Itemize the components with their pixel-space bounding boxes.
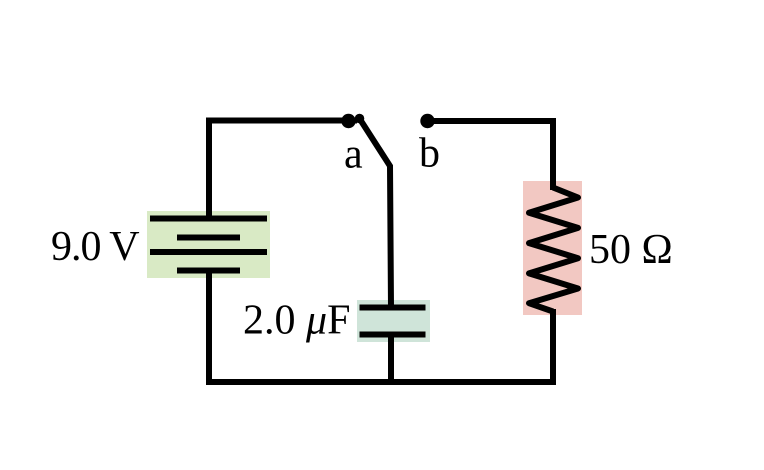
- wire resistor bottom to bottom rail: [550, 309, 556, 382]
- svg-text:9.0 V: 9.0 V: [51, 224, 139, 270]
- wire bottom-left (battery bottom to bottom rail): [206, 271, 212, 382]
- capacitor 2.0 uF: [360, 308, 426, 335]
- resistor 50 Ohm: [529, 188, 578, 312]
- wire capacitor bottom to bottom rail: [388, 335, 394, 383]
- node b: [420, 114, 434, 128]
- svg-text:50 Ω: 50 Ω: [589, 227, 673, 273]
- battery highlight: [147, 211, 270, 278]
- node a: [341, 114, 355, 128]
- battery 9.0 V: [150, 219, 267, 271]
- wire node b to right corner and down to resistor: [428, 121, 553, 190]
- svg-text:2.0 μF: 2.0 μF: [243, 298, 350, 344]
- switch lever (pivot to capacitor top): [360, 119, 392, 308]
- capacitor highlight: [357, 300, 430, 342]
- svg-text:a: a: [344, 132, 363, 178]
- wire bottom rail: [206, 379, 556, 385]
- svg-text:b: b: [419, 131, 440, 177]
- resistor highlight: [523, 181, 582, 315]
- wire top-left (battery top to switch a): [209, 121, 357, 219]
- switch pivot dot: [355, 114, 365, 124]
